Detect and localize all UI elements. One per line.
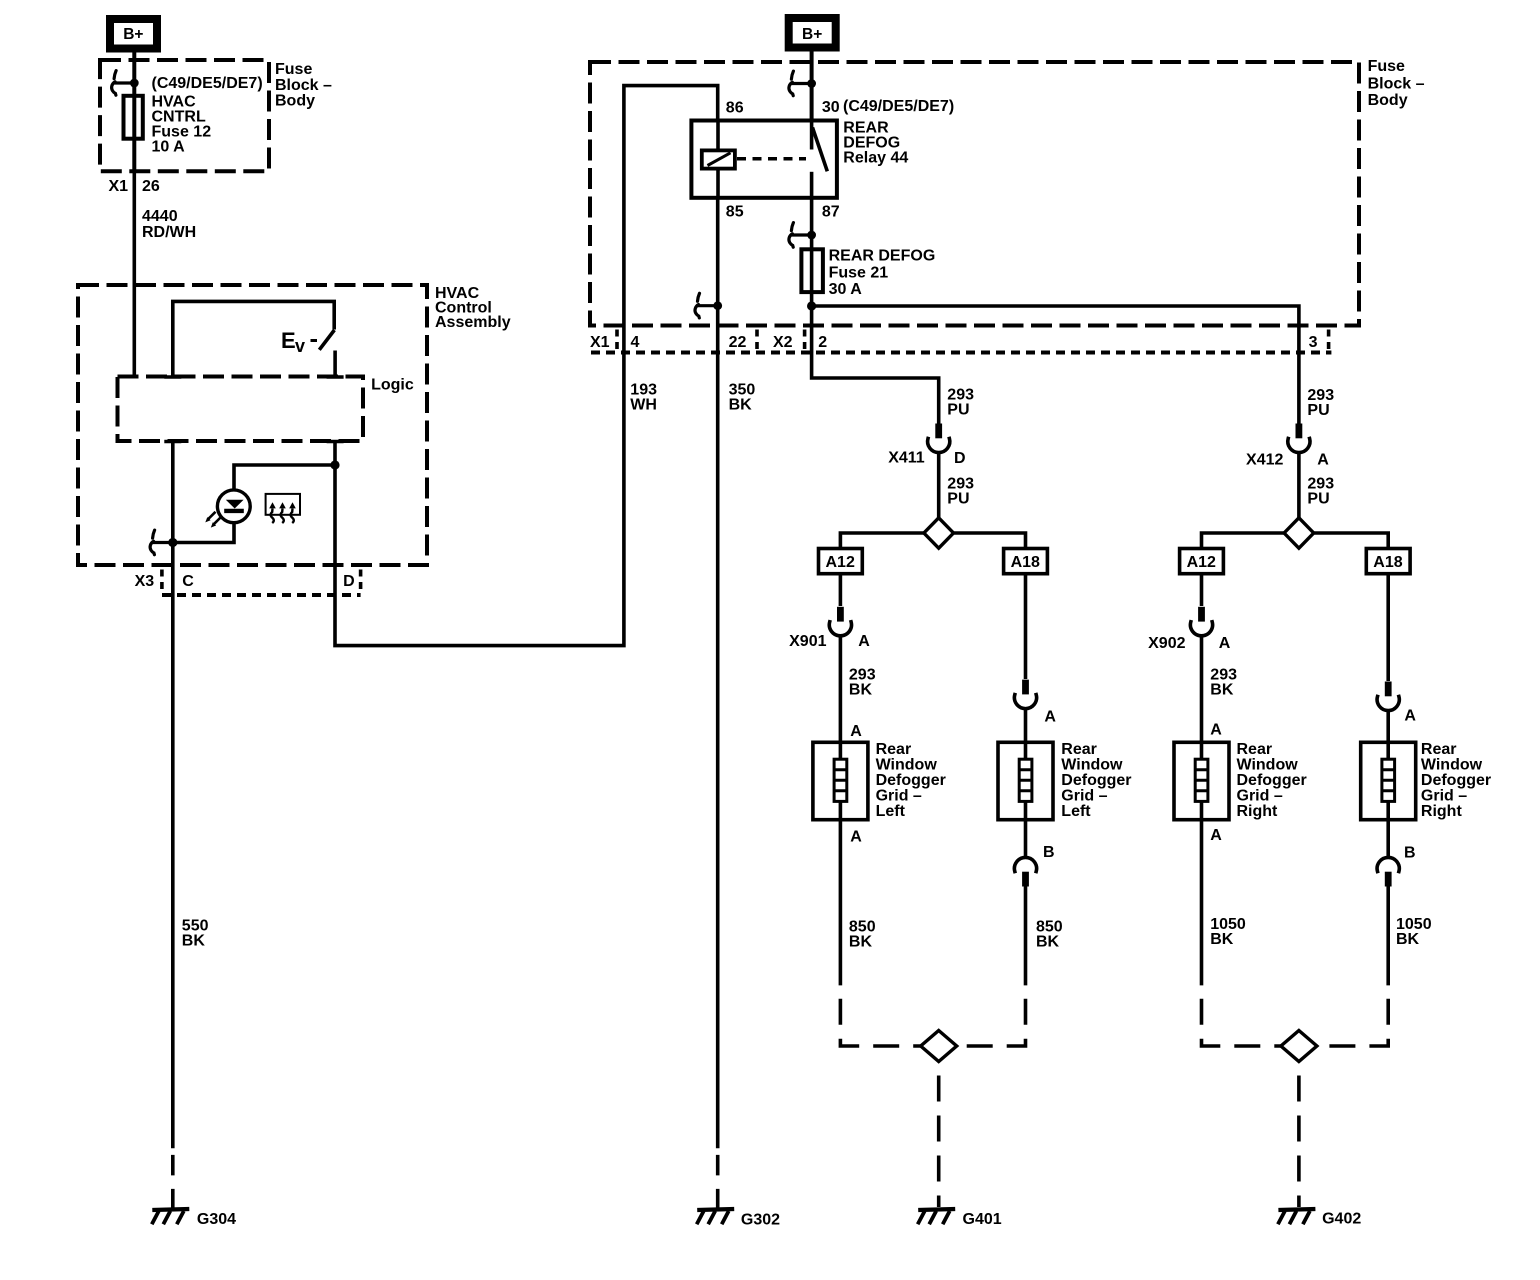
wire A12 to X902: [1200, 574, 1204, 606]
wire label 350 BK: [729, 382, 756, 414]
defog switch blade: [319, 330, 334, 350]
svg-text:Body: Body: [1368, 92, 1408, 109]
relay switch blade: [813, 128, 828, 172]
svg-text:PU: PU: [1307, 490, 1329, 507]
svg-text:B: B: [1043, 844, 1055, 861]
wire B+ feed to fuse 12: [132, 53, 136, 172]
connector LR pin A: [1014, 680, 1036, 709]
dashed wire LR to splice: [957, 985, 1026, 1046]
label X412 pin A: [1246, 452, 1329, 469]
svg-text:Defogger: Defogger: [1061, 772, 1131, 789]
svg-text:Left: Left: [876, 803, 906, 820]
dashed wire RL to splice: [1202, 985, 1282, 1046]
junction node at C wire: [168, 538, 177, 547]
wire label 293 PU (right upper): [1307, 387, 1334, 419]
wire X411 to splice: [937, 453, 941, 518]
fuse F12: [124, 96, 143, 139]
svg-text:Relay 44: Relay 44: [843, 150, 908, 167]
svg-text:X1: X1: [590, 334, 610, 351]
wire 293 BK (right): [1200, 636, 1204, 743]
svg-text:G402: G402: [1322, 1211, 1361, 1228]
svg-text:Assembly: Assembly: [435, 314, 511, 331]
svg-text:A: A: [850, 723, 862, 740]
svg-text:Right: Right: [1421, 803, 1463, 820]
svg-text:Block –: Block –: [275, 77, 332, 94]
dashed wire LL to splice: [840, 985, 920, 1046]
wire 293 feed to X2 pin 3: [812, 306, 1299, 425]
svg-text:3: 3: [1309, 334, 1318, 351]
wire A12 to X901: [839, 574, 843, 606]
svg-text:Body: Body: [275, 93, 315, 110]
svg-text:A: A: [1219, 635, 1231, 652]
svg-text:Rear: Rear: [876, 741, 912, 758]
svg-text:A: A: [1210, 721, 1222, 738]
connector X411: [928, 424, 950, 453]
wire splice to A18 (left): [954, 533, 1026, 549]
HVAC control assembly dashed box: [78, 285, 427, 565]
svg-text:BK: BK: [849, 933, 873, 950]
svg-text:BK: BK: [1396, 931, 1420, 948]
ground G402: [1278, 1209, 1316, 1224]
wire 293 BK (left): [839, 636, 843, 743]
wire grid LR to connector B: [1024, 820, 1028, 858]
ground G304: [152, 1209, 190, 1224]
svg-text:A: A: [1210, 827, 1222, 844]
wire B+ feed to relay 30: [810, 52, 814, 121]
svg-text:D: D: [343, 573, 355, 590]
svg-text:Right: Right: [1237, 803, 1279, 820]
svg-text:Block –: Block –: [1368, 76, 1425, 93]
wire label 293 PU (left lower): [947, 476, 974, 508]
svg-text:22: 22: [729, 334, 747, 351]
svg-text:Window: Window: [1237, 757, 1299, 774]
wire to grid LR: [1024, 709, 1028, 743]
rear window defogger grid left 2: [998, 742, 1053, 819]
splice diamond (left top): [924, 518, 954, 548]
svg-text:X901: X901: [789, 633, 826, 650]
svg-text:X2: X2: [773, 334, 793, 351]
svg-text:Fuse: Fuse: [1368, 58, 1405, 75]
svg-text:A: A: [1404, 707, 1416, 724]
terminal A12 (left): [819, 549, 863, 574]
fuse block body 1 (dashed box): [100, 60, 269, 171]
rear window defogger grid right 2: [1361, 742, 1416, 819]
fuse block body 2 (dashed box): [590, 62, 1359, 326]
relay actuation dashed link: [737, 157, 806, 161]
svg-text:G304: G304: [197, 1211, 236, 1228]
logic dashed box: [118, 377, 364, 442]
wire label 293 BK (right): [1210, 667, 1237, 699]
svg-text:85: 85: [726, 204, 744, 221]
wire label 850 BK (LL): [849, 918, 876, 950]
svg-text:Window: Window: [876, 757, 938, 774]
wire label 293 PU (right lower): [1307, 475, 1334, 507]
svg-text:BK: BK: [182, 932, 206, 949]
rear window defogger grid right 1: [1174, 742, 1229, 819]
svg-text:Rear: Rear: [1237, 741, 1273, 758]
label HVAC CNTRL Fuse 12 10 A: [152, 94, 212, 156]
wire A18 to grid LR: [1024, 574, 1028, 679]
wire label 293 BK (left): [849, 667, 876, 699]
wire label 193 WH: [630, 382, 657, 414]
splice diamond (left bottom): [921, 1031, 957, 1062]
svg-text:E: E: [281, 328, 296, 353]
ground G401: [918, 1209, 956, 1224]
svg-text:A18: A18: [1011, 554, 1040, 571]
svg-text:PU: PU: [947, 402, 969, 419]
label Rear Window Defogger Grid - Right (2): [1421, 741, 1491, 820]
battery terminal B+ (left): [110, 19, 157, 49]
LED indicator (defog lamp): [205, 490, 250, 528]
connector LR pin B: [1014, 857, 1036, 886]
label Rear Window Defogger Grid - Right (1): [1237, 741, 1307, 820]
splice diamond (right bottom): [1281, 1031, 1317, 1062]
dashed wire splice to G401: [937, 1062, 941, 1208]
svg-text:X1: X1: [109, 178, 129, 195]
pin T-cap logic bottom right: [327, 440, 344, 444]
svg-text:WH: WH: [630, 397, 657, 414]
svg-text:C: C: [182, 573, 194, 590]
pin T-cap left: [164, 375, 181, 379]
svg-text:26: 26: [142, 178, 160, 195]
svg-text:X902: X902: [1148, 635, 1185, 652]
svg-text:RD/WH: RD/WH: [142, 224, 196, 241]
wire grid RR to connector B: [1386, 820, 1390, 858]
wire D output from logic: [335, 86, 718, 646]
wire 350 BK dashed tail: [716, 1148, 720, 1207]
svg-text:Rear: Rear: [1421, 741, 1457, 758]
svg-text:(C49/DE5/DE7): (C49/DE5/DE7): [843, 98, 954, 115]
wire to grid RR: [1386, 711, 1390, 743]
svg-text:4: 4: [631, 334, 640, 351]
defogger heat indicator icon: [266, 494, 300, 523]
relay K44 box: [691, 121, 837, 198]
svg-text:B+: B+: [123, 26, 143, 43]
connector X3 strip: [135, 570, 361, 596]
svg-text:A: A: [1317, 452, 1329, 469]
svg-text:Fuse 21: Fuse 21: [829, 265, 889, 282]
wire switch loop (logic to defog switch): [173, 301, 334, 378]
svg-text:Logic: Logic: [371, 376, 414, 393]
svg-text:Left: Left: [1061, 803, 1091, 820]
svg-text:Defogger: Defogger: [1421, 772, 1491, 789]
svg-text:A12: A12: [1187, 554, 1216, 571]
svg-text:Grid –: Grid –: [1237, 788, 1283, 805]
svg-text:G302: G302: [741, 1212, 780, 1229]
splice clip above fuse 21: [789, 223, 816, 248]
splice diamond (right top): [1284, 518, 1314, 548]
svg-text:BK: BK: [729, 397, 753, 414]
wire 1050 BK (RL): [1200, 820, 1204, 986]
label Fuse Block - Body (left): [275, 61, 332, 110]
svg-text:Grid –: Grid –: [1421, 788, 1467, 805]
svg-text:G401: G401: [963, 1211, 1002, 1228]
svg-text:v: v: [295, 336, 305, 356]
label X902 pin A: [1148, 635, 1231, 652]
splice clip at relay 30 feed: [789, 71, 816, 96]
splice clip at fuse 12 feed: [112, 71, 139, 96]
relay coil: [702, 150, 735, 168]
label Ev switch: [281, 328, 317, 356]
label Fuse Block - Body (right): [1368, 58, 1425, 109]
label X901 pin A: [789, 633, 870, 650]
svg-text:10 A: 10 A: [152, 139, 186, 156]
svg-text:BK: BK: [849, 682, 873, 699]
svg-text:PU: PU: [1307, 402, 1329, 419]
wire label 1050 BK (RR): [1396, 916, 1432, 948]
svg-text:Window: Window: [1061, 757, 1123, 774]
connector RR pin B: [1377, 857, 1399, 886]
wire 1050 BK (RR): [1386, 886, 1390, 985]
label Rear Window Defogger Grid - Left (2): [1061, 741, 1131, 820]
svg-text:REAR DEFOG: REAR DEFOG: [829, 248, 936, 265]
relay contact 30 internal: [810, 121, 814, 150]
wire label 1050 BK (RL): [1210, 916, 1246, 948]
rear window defogger grid left 1: [813, 742, 868, 819]
wire switch lower contact: [333, 351, 337, 379]
svg-text:4440: 4440: [142, 208, 178, 225]
label Rear Window Defogger Grid - Left (1): [876, 741, 946, 820]
relay coil wire 86 internal: [716, 121, 720, 151]
splice clip at X3-C: [150, 530, 177, 555]
fuse F21: [801, 249, 823, 292]
svg-text:BK: BK: [1210, 682, 1234, 699]
terminal A12 (right): [1180, 549, 1224, 574]
svg-text:D: D: [954, 450, 966, 467]
svg-text:Rear: Rear: [1061, 741, 1097, 758]
svg-text:Defogger: Defogger: [1237, 772, 1307, 789]
svg-text:A: A: [858, 633, 870, 650]
wire label 850 BK (LR): [1036, 918, 1063, 950]
wire relay 85 to ground G302 (350 BK): [716, 198, 720, 1148]
dashed wire RR to splice: [1320, 985, 1389, 1046]
label REAR DEFOG Relay 44: [843, 120, 908, 167]
connector X902: [1190, 607, 1212, 636]
pin T-cap logic bottom left: [164, 440, 181, 444]
svg-text:(C49/DE5/DE7): (C49/DE5/DE7): [152, 75, 263, 92]
svg-text:X412: X412: [1246, 452, 1283, 469]
svg-text:BK: BK: [1036, 933, 1060, 950]
wire splice to A12 (right): [1202, 533, 1285, 549]
terminal A18 (left): [1004, 549, 1048, 574]
ground G302: [697, 1209, 735, 1224]
svg-text:A: A: [1044, 709, 1056, 726]
relay contact 87 internal: [810, 172, 814, 198]
wire label 550 BK: [182, 917, 209, 949]
wire label 4440 RD/WH: [142, 208, 196, 241]
svg-text:B: B: [1404, 845, 1416, 862]
wire X412 to splice: [1297, 453, 1301, 518]
svg-text:A: A: [850, 828, 862, 845]
connector X412: [1288, 424, 1310, 453]
svg-text:Fuse: Fuse: [275, 61, 312, 78]
wire 850 BK (LL): [839, 820, 843, 986]
splice clip at X1 pin 22: [695, 293, 722, 318]
relay coil wire 85 internal: [716, 169, 720, 198]
svg-text:30: 30: [822, 99, 840, 116]
svg-text:2: 2: [818, 334, 827, 351]
wire splice to A12 (left): [840, 533, 924, 549]
svg-text:30 A: 30 A: [829, 281, 863, 298]
wire LED branch: [173, 465, 335, 543]
svg-text:Grid –: Grid –: [1061, 788, 1107, 805]
svg-text:X411: X411: [888, 449, 925, 466]
svg-text:86: 86: [726, 100, 744, 117]
dashed wire splice to G402: [1297, 1062, 1301, 1208]
pin T-cap right: [327, 375, 344, 379]
svg-text:PU: PU: [947, 491, 969, 508]
battery terminal B+ (center): [789, 18, 836, 48]
svg-text:B+: B+: [802, 26, 822, 43]
svg-text:X3: X3: [135, 573, 155, 590]
wire 850 BK (LR): [1024, 886, 1028, 985]
svg-text:Grid –: Grid –: [876, 788, 922, 805]
wire splice to A18 (right): [1314, 533, 1389, 549]
wire 550 BK (logic C output to ground): [171, 441, 175, 1148]
connector X1/X2 strip: [590, 330, 1331, 353]
connector RR pin A: [1377, 682, 1399, 711]
svg-text:87: 87: [822, 204, 840, 221]
wire relay 87 through fuse 21 down to X2 pin 2: [812, 198, 939, 425]
wire 550 BK dashed tail: [171, 1148, 175, 1207]
wire 4440 RD/WH to HVAC logic: [133, 171, 137, 376]
svg-text:Window: Window: [1421, 757, 1483, 774]
wire label 293 PU (left upper): [947, 387, 974, 419]
label REAR DEFOG Fuse 21 30 A: [829, 248, 936, 299]
wire A18 to grid RR: [1386, 574, 1390, 681]
svg-text:Defogger: Defogger: [876, 772, 946, 789]
terminal A18 (right): [1366, 549, 1410, 574]
svg-text:A18: A18: [1373, 554, 1402, 571]
connector X901: [829, 607, 851, 636]
label X411 pin D: [888, 449, 965, 467]
svg-text:BK: BK: [1210, 931, 1234, 948]
junction node at D wire: [330, 460, 339, 469]
label connector X1 pin 26: [109, 178, 160, 195]
svg-text:A12: A12: [826, 554, 855, 571]
junction node after fuse 21: [807, 301, 816, 310]
label HVAC Control Assembly: [435, 285, 511, 331]
